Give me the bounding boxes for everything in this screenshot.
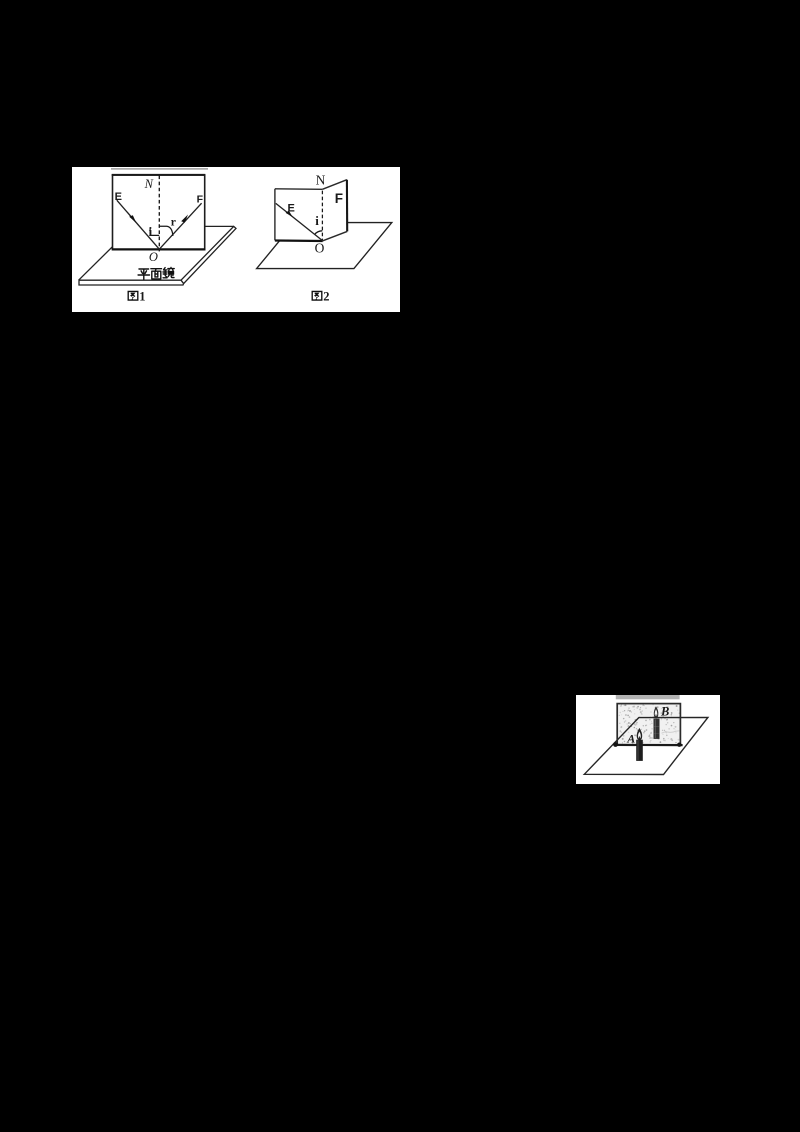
right panel top edge: [322, 180, 347, 190]
svg-text:N: N: [144, 177, 154, 191]
right panel (fig2): [322, 180, 347, 241]
glass plate border: [617, 704, 680, 745]
right panel bottom edge: [322, 231, 347, 241]
平面镜 label (on slab, drawn before screen): [138, 268, 174, 280]
left panel (fig2): [275, 189, 323, 241]
svg-text:r: r: [171, 216, 176, 228]
glass speckle texture: [619, 704, 680, 744]
arrowhead ray E (fig2): [286, 211, 293, 217]
right panel right thick edge: [346, 180, 348, 232]
glass plate fill: [617, 704, 680, 745]
svg-text:A: A: [626, 732, 635, 746]
screen top edge thick: [112, 174, 206, 176]
angle i bracket mark: [150, 227, 159, 235]
svg-text:E: E: [288, 202, 295, 214]
svg-text:N: N: [316, 172, 326, 187]
arrowhead on incident ray: [129, 215, 136, 223]
right pin dot: [677, 743, 681, 747]
faint scribble in glass: [662, 731, 680, 733]
slab back edge: [133, 225, 234, 227]
white panel fig3: [576, 695, 720, 784]
candle A (real candle): [636, 728, 643, 761]
table plane (candle fig): [584, 717, 708, 774]
arrowhead on reflected ray: [181, 215, 188, 223]
white panel fig1: [72, 167, 400, 312]
svg-text:1: 1: [139, 289, 145, 303]
svg-text:i: i: [149, 224, 153, 239]
caption 图1: [128, 291, 138, 300]
svg-text:F: F: [197, 194, 204, 206]
left panel bottom thick edge: [275, 239, 323, 242]
svg-text:B: B: [660, 704, 669, 718]
grey scan artifact line top: [111, 168, 208, 170]
slab left edge: [79, 226, 133, 280]
slab right side face (thickness band): [181, 226, 236, 283]
candle A flame: [637, 728, 643, 741]
angle arc at O (fig2): [315, 231, 323, 235]
svg-text:i: i: [315, 213, 319, 228]
glass bottom thick edge: [614, 744, 682, 746]
left panel left edge: [274, 189, 276, 241]
candle B (image behind glass): [654, 706, 660, 739]
mirror surface line (screen bottom, thick): [112, 248, 206, 250]
angle r arc mark: [160, 226, 173, 236]
screen rectangle: [113, 175, 205, 249]
left pin dot: [613, 742, 618, 747]
caption 图2: [312, 291, 322, 300]
incident ray E: [117, 200, 160, 249]
svg-text:2: 2: [323, 289, 329, 303]
grey bar top: [616, 695, 680, 699]
svg-text:O: O: [315, 240, 325, 255]
svg-text:O: O: [149, 250, 158, 264]
candle B flame: [654, 706, 659, 718]
table plane (fig2): [257, 223, 392, 269]
slab front face: [79, 280, 184, 285]
glyph 面: [151, 269, 162, 279]
svg-text:F: F: [335, 191, 343, 206]
svg-text:E: E: [115, 191, 122, 203]
glyph 镜: [163, 268, 174, 278]
glyph 平: [138, 269, 149, 279]
left panel top edge: [275, 188, 323, 191]
normal N-O dashed: [158, 176, 160, 252]
fold normal N-O dashed (fig2): [321, 191, 323, 241]
reflected ray F: [159, 203, 201, 249]
incident ray E (fig2): [276, 203, 323, 240]
